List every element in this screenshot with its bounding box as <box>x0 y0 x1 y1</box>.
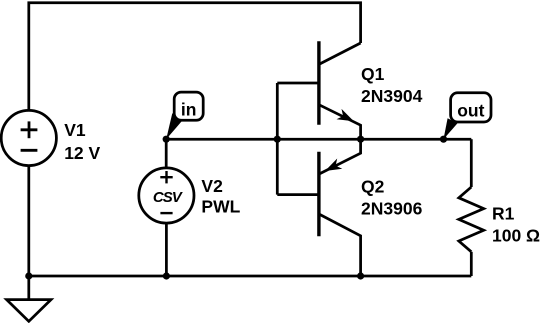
junction dot at out node <box>440 136 447 143</box>
wire R1 bottom to ground rail <box>470 252 473 276</box>
svg-text:Q1: Q1 <box>361 64 385 84</box>
svg-text:2N3906: 2N3906 <box>361 199 423 219</box>
wire V2 bottom to ground rail <box>165 223 168 276</box>
transistor Q1 2N3904 (NPN) <box>319 41 361 139</box>
junction dot at emitters <box>357 136 364 143</box>
transistor Q2 2N3906 (PNP) <box>319 139 361 276</box>
wire top rail (V1 top to Q1 collector) <box>29 3 361 111</box>
junction dot at V2 ground <box>163 272 170 279</box>
svg-text:V1: V1 <box>64 120 86 140</box>
svg-text:100 Ω: 100 Ω <box>492 225 540 245</box>
svg-text:CSV: CSV <box>153 189 184 206</box>
voltage source V1 <box>1 110 56 165</box>
wire V1 bottom to ground rail <box>27 166 30 276</box>
wire in node down to V2 <box>165 139 168 168</box>
wire Q1 base lead <box>277 82 317 85</box>
wire Q2 base lead <box>277 193 317 196</box>
junction dot at Q2 collector ground <box>357 272 364 279</box>
voltage source V2 <box>139 168 194 223</box>
junction dot at base bus <box>274 136 281 143</box>
junction dot at in node <box>163 136 170 143</box>
wire bottom ground rail <box>29 275 472 278</box>
svg-text:V2: V2 <box>201 176 223 196</box>
svg-text:out: out <box>457 100 484 120</box>
resistor R1 <box>459 187 484 252</box>
wire base bus vertical <box>276 83 279 195</box>
svg-text:R1: R1 <box>492 204 515 224</box>
svg-text:2N3904: 2N3904 <box>361 86 423 106</box>
node in flag <box>166 92 203 139</box>
svg-text:PWL: PWL <box>201 197 240 217</box>
wire main horizontal in-to-out net <box>166 138 471 141</box>
node out flag <box>444 93 492 139</box>
wire out corner down to R1 <box>470 139 473 187</box>
svg-text:in: in <box>181 100 197 120</box>
ground <box>7 276 51 321</box>
junction dot at V1 ground <box>25 272 32 279</box>
svg-text:12 V: 12 V <box>64 143 100 163</box>
svg-text:Q2: Q2 <box>361 177 385 197</box>
